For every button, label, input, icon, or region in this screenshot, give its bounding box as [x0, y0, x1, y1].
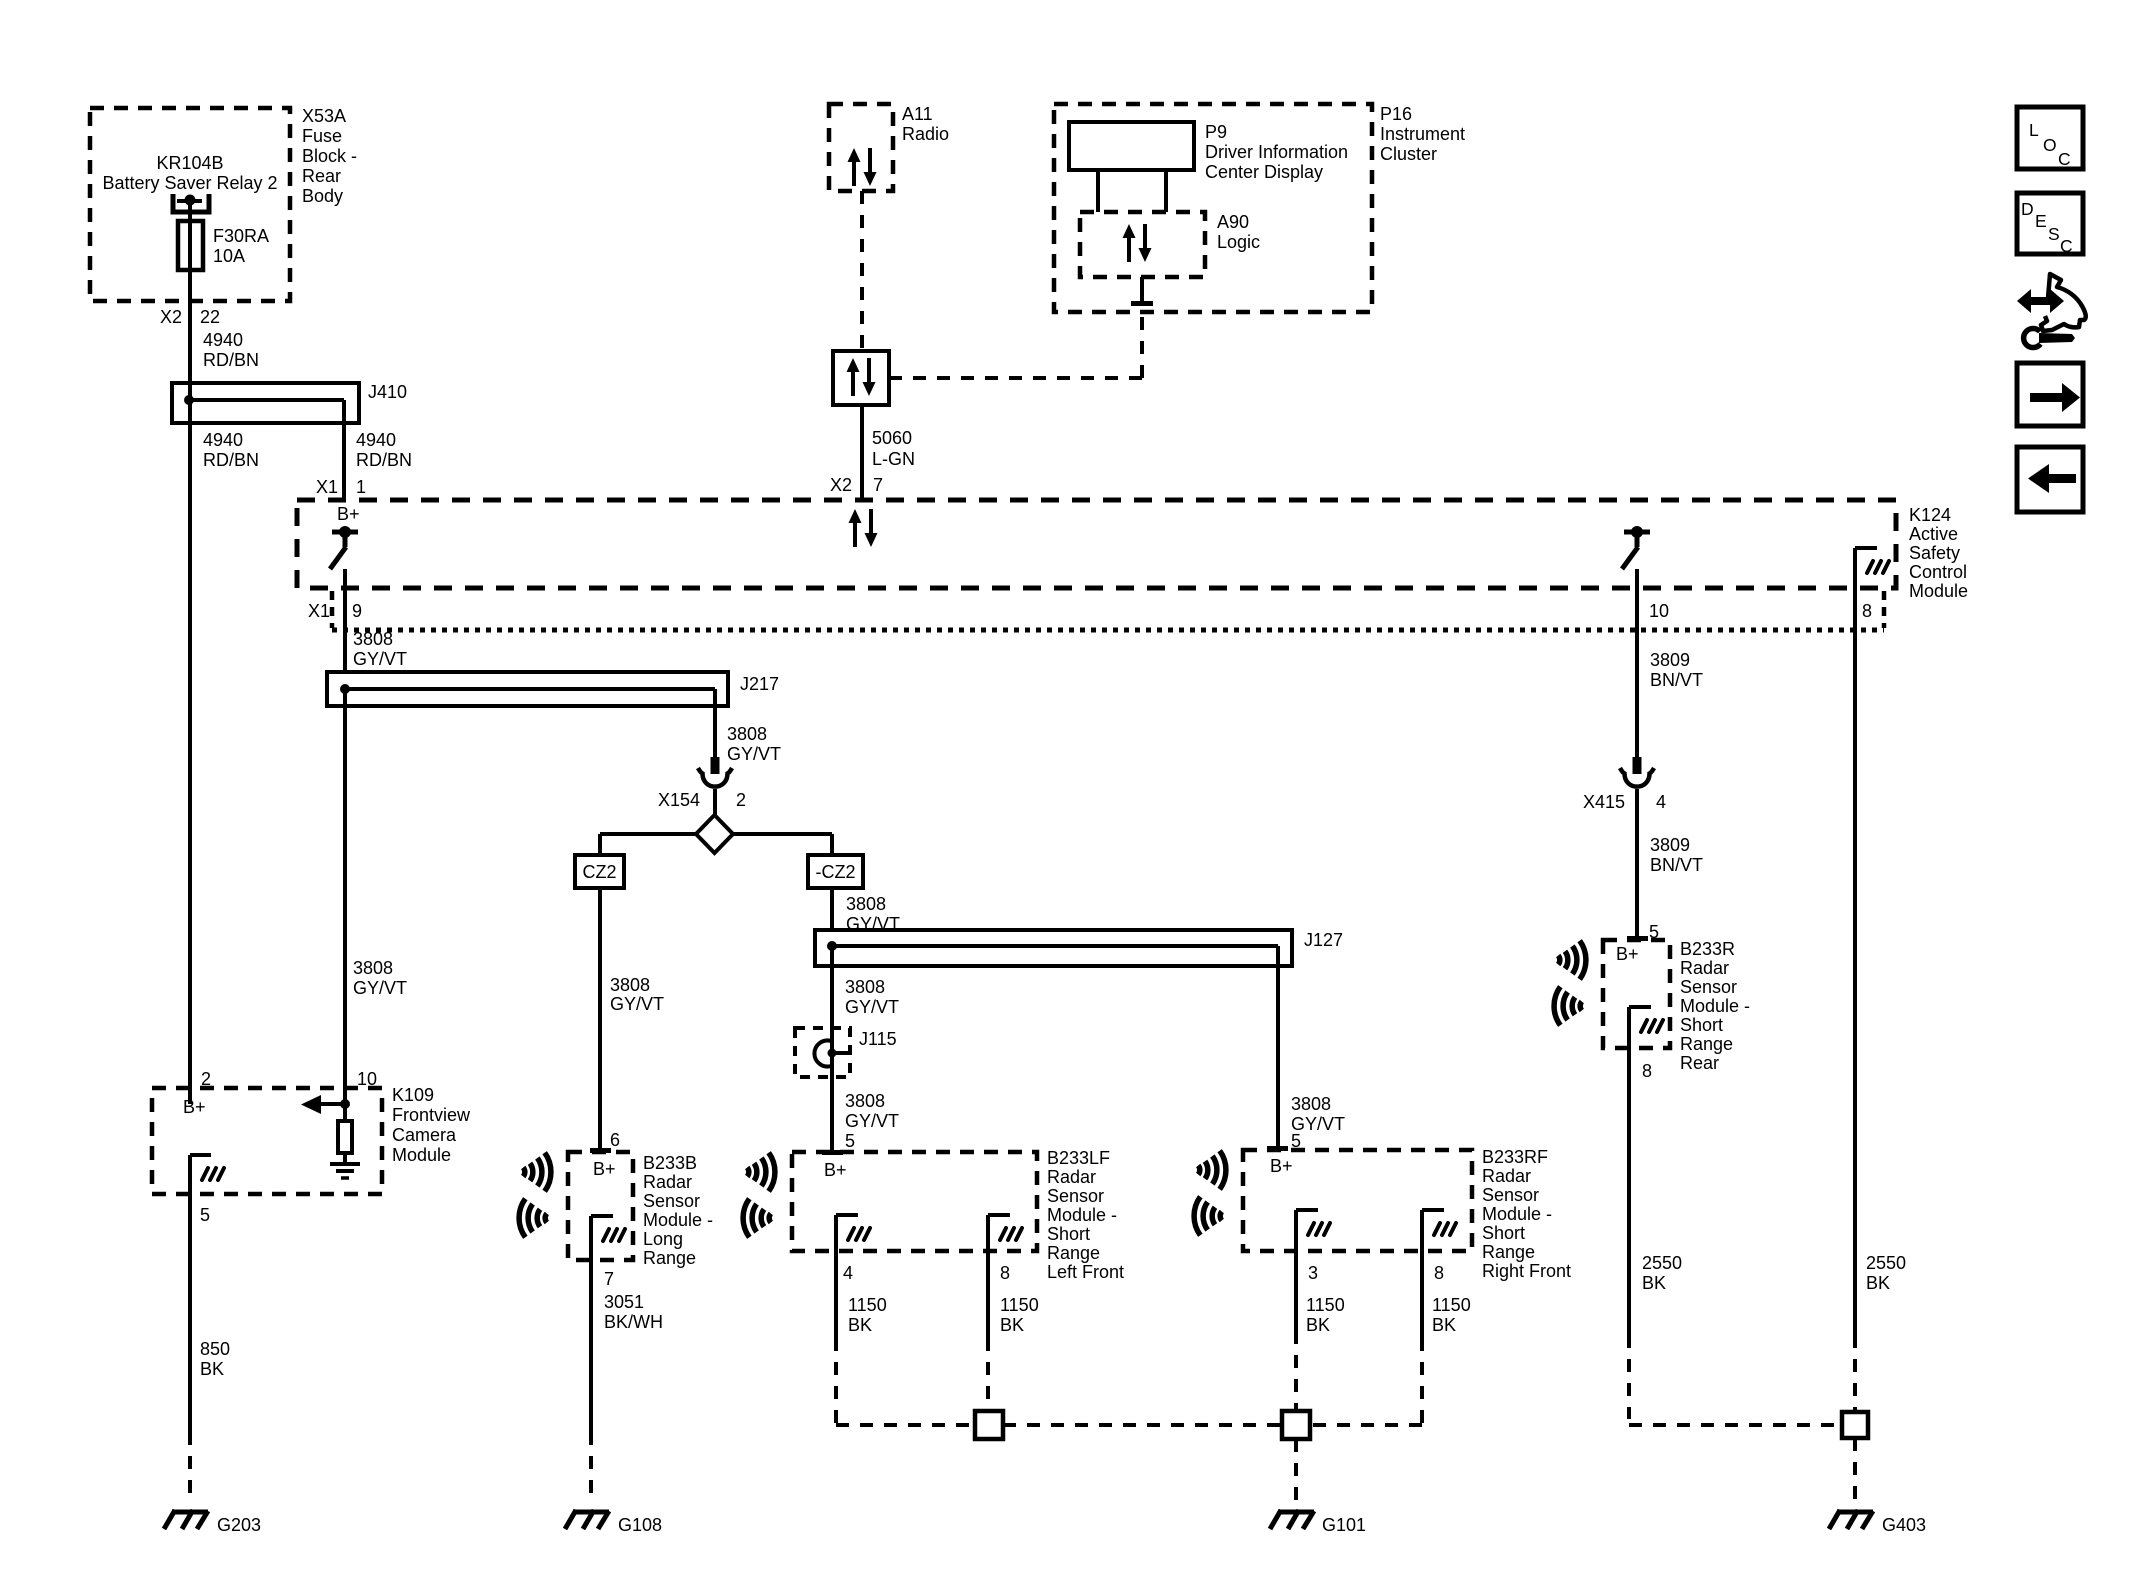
- svg-text:X2: X2: [160, 307, 182, 327]
- svg-text:Short: Short: [1482, 1223, 1525, 1243]
- svg-text:Active: Active: [1909, 524, 1958, 544]
- svg-text:S: S: [2048, 224, 2060, 244]
- svg-text:1150: 1150: [848, 1295, 887, 1315]
- svg-text:Sensor: Sensor: [1482, 1185, 1539, 1205]
- svg-text:Sensor: Sensor: [1047, 1186, 1104, 1206]
- svg-text:E: E: [2035, 211, 2047, 231]
- svg-text:RD/BN: RD/BN: [203, 450, 259, 470]
- svg-text:B233B: B233B: [643, 1153, 697, 1173]
- svg-text:8: 8: [1000, 1263, 1010, 1283]
- svg-text:10: 10: [357, 1069, 377, 1089]
- svg-text:Module -: Module -: [1482, 1204, 1552, 1224]
- svg-text:Long: Long: [643, 1229, 683, 1249]
- svg-text:Sensor: Sensor: [643, 1191, 700, 1211]
- svg-text:J127: J127: [1304, 930, 1343, 950]
- svg-text:22: 22: [200, 307, 220, 327]
- svg-text:4940: 4940: [203, 430, 243, 450]
- svg-text:Range: Range: [1482, 1242, 1535, 1262]
- svg-text:5: 5: [200, 1205, 210, 1225]
- svg-text:2: 2: [736, 790, 746, 810]
- svg-text:Center Display: Center Display: [1205, 162, 1323, 182]
- svg-text:B+: B+: [337, 504, 360, 524]
- svg-text:Radio: Radio: [902, 124, 949, 144]
- svg-text:KR104B: KR104B: [156, 153, 223, 173]
- svg-text:Right Front: Right Front: [1482, 1261, 1571, 1281]
- svg-text:Frontview: Frontview: [392, 1105, 471, 1125]
- svg-text:G203: G203: [217, 1515, 261, 1535]
- svg-text:B233R: B233R: [1680, 939, 1735, 959]
- svg-text:B+: B+: [593, 1159, 616, 1179]
- svg-text:RD/BN: RD/BN: [356, 450, 412, 470]
- svg-text:5: 5: [845, 1131, 855, 1151]
- svg-text:8: 8: [1862, 601, 1872, 621]
- svg-text:CZ2: CZ2: [582, 862, 616, 882]
- svg-text:BK: BK: [200, 1359, 224, 1379]
- svg-text:Sensor: Sensor: [1680, 977, 1737, 997]
- svg-text:2: 2: [201, 1069, 211, 1089]
- svg-text:4940: 4940: [356, 430, 396, 450]
- svg-text:Radar: Radar: [643, 1172, 692, 1192]
- svg-text:1150: 1150: [1306, 1295, 1345, 1315]
- svg-text:3808: 3808: [353, 629, 393, 649]
- svg-text:GY/VT: GY/VT: [846, 914, 900, 934]
- svg-text:3051: 3051: [604, 1292, 644, 1312]
- svg-text:4: 4: [1656, 792, 1666, 812]
- svg-text:9: 9: [352, 601, 362, 621]
- svg-text:3808: 3808: [727, 724, 767, 744]
- svg-text:B+: B+: [1616, 944, 1639, 964]
- svg-text:X415: X415: [1583, 792, 1625, 812]
- svg-text:3808: 3808: [845, 977, 885, 997]
- svg-text:3808: 3808: [353, 958, 393, 978]
- svg-text:F30RA: F30RA: [213, 226, 269, 246]
- svg-text:Instrument: Instrument: [1380, 124, 1465, 144]
- svg-text:Range: Range: [1680, 1034, 1733, 1054]
- svg-text:BK/WH: BK/WH: [604, 1312, 663, 1332]
- svg-text:D: D: [2021, 199, 2034, 219]
- svg-text:GY/VT: GY/VT: [845, 1111, 899, 1131]
- svg-text:Module -: Module -: [643, 1210, 713, 1230]
- svg-text:10: 10: [1649, 601, 1669, 621]
- svg-text:-CZ2: -CZ2: [816, 862, 856, 882]
- svg-text:Body: Body: [302, 186, 343, 206]
- svg-text:5: 5: [1649, 922, 1659, 942]
- svg-text:Radar: Radar: [1047, 1167, 1096, 1187]
- svg-text:K109: K109: [392, 1085, 434, 1105]
- svg-text:G101: G101: [1322, 1515, 1366, 1535]
- svg-text:B+: B+: [183, 1097, 206, 1117]
- svg-text:Short: Short: [1680, 1015, 1723, 1035]
- svg-text:X2: X2: [830, 475, 852, 495]
- svg-text:J217: J217: [740, 674, 779, 694]
- svg-text:BN/VT: BN/VT: [1650, 670, 1703, 690]
- svg-text:BN/VT: BN/VT: [1650, 855, 1703, 875]
- svg-text:Module: Module: [392, 1145, 451, 1165]
- svg-text:Camera: Camera: [392, 1125, 457, 1145]
- svg-text:5060: 5060: [872, 428, 912, 448]
- svg-text:BK: BK: [848, 1315, 872, 1335]
- svg-text:BK: BK: [1000, 1315, 1024, 1335]
- svg-text:C: C: [2060, 236, 2073, 256]
- svg-text:Block -: Block -: [302, 146, 357, 166]
- svg-text:3: 3: [1308, 1263, 1318, 1283]
- svg-text:Short: Short: [1047, 1224, 1090, 1244]
- svg-text:1: 1: [356, 477, 366, 497]
- svg-text:A11: A11: [902, 104, 933, 124]
- svg-text:A90: A90: [1217, 212, 1249, 232]
- svg-text:850: 850: [200, 1339, 230, 1359]
- svg-text:B233RF: B233RF: [1482, 1147, 1548, 1167]
- svg-text:P9: P9: [1205, 122, 1227, 142]
- svg-text:2550: 2550: [1642, 1253, 1682, 1273]
- svg-text:BK: BK: [1866, 1273, 1890, 1293]
- svg-text:B+: B+: [824, 1160, 847, 1180]
- svg-text:GY/VT: GY/VT: [727, 744, 781, 764]
- svg-text:Radar: Radar: [1482, 1166, 1531, 1186]
- svg-text:Left Front: Left Front: [1047, 1262, 1124, 1282]
- svg-text:Safety: Safety: [1909, 543, 1960, 563]
- svg-text:Range: Range: [1047, 1243, 1100, 1263]
- svg-text:3809: 3809: [1650, 835, 1690, 855]
- svg-text:1150: 1150: [1000, 1295, 1039, 1315]
- svg-text:Rear: Rear: [1680, 1053, 1719, 1073]
- svg-text:X1: X1: [308, 601, 330, 621]
- svg-text:3808: 3808: [1291, 1094, 1331, 1114]
- svg-text:Fuse: Fuse: [302, 126, 342, 146]
- svg-text:3808: 3808: [846, 894, 886, 914]
- svg-text:Cluster: Cluster: [1380, 144, 1437, 164]
- svg-text:BK: BK: [1432, 1315, 1456, 1335]
- svg-text:K124: K124: [1909, 505, 1951, 525]
- svg-text:BK: BK: [1642, 1273, 1666, 1293]
- svg-text:Module -: Module -: [1047, 1205, 1117, 1225]
- svg-text:8: 8: [1434, 1263, 1444, 1283]
- svg-text:X1: X1: [316, 477, 338, 497]
- svg-text:Radar: Radar: [1680, 958, 1729, 978]
- svg-text:RD/BN: RD/BN: [203, 350, 259, 370]
- svg-text:Module -: Module -: [1680, 996, 1750, 1016]
- svg-text:GY/VT: GY/VT: [610, 994, 664, 1014]
- svg-text:3809: 3809: [1650, 650, 1690, 670]
- svg-text:X154: X154: [658, 790, 700, 810]
- svg-text:BK: BK: [1306, 1315, 1330, 1335]
- svg-text:Driver Information: Driver Information: [1205, 142, 1348, 162]
- svg-text:3808: 3808: [845, 1091, 885, 1111]
- svg-text:10A: 10A: [213, 246, 245, 266]
- svg-text:5: 5: [1291, 1131, 1301, 1151]
- svg-text:Module: Module: [1909, 581, 1968, 601]
- svg-text:J410: J410: [368, 382, 407, 402]
- svg-text:8: 8: [1642, 1061, 1652, 1081]
- svg-text:L-GN: L-GN: [872, 449, 915, 469]
- svg-text:O: O: [2043, 135, 2057, 155]
- svg-text:GY/VT: GY/VT: [845, 997, 899, 1017]
- svg-text:6: 6: [610, 1130, 620, 1150]
- svg-text:GY/VT: GY/VT: [353, 978, 407, 998]
- svg-text:7: 7: [873, 475, 883, 495]
- svg-text:4940: 4940: [203, 330, 243, 350]
- svg-text:Range: Range: [643, 1248, 696, 1268]
- svg-text:Rear: Rear: [302, 166, 341, 186]
- svg-text:4: 4: [843, 1263, 853, 1283]
- svg-text:GY/VT: GY/VT: [353, 649, 407, 669]
- svg-text:C: C: [2058, 149, 2071, 169]
- svg-text:G108: G108: [618, 1515, 662, 1535]
- svg-text:2550: 2550: [1866, 1253, 1906, 1273]
- svg-text:Logic: Logic: [1217, 232, 1260, 252]
- svg-text:L: L: [2029, 120, 2039, 140]
- svg-text:Control: Control: [1909, 562, 1967, 582]
- svg-text:X53A: X53A: [302, 106, 346, 126]
- svg-text:7: 7: [604, 1269, 614, 1289]
- svg-text:3808: 3808: [610, 975, 650, 995]
- svg-text:1150: 1150: [1432, 1295, 1471, 1315]
- svg-text:B+: B+: [1270, 1156, 1293, 1176]
- svg-text:J115: J115: [859, 1029, 897, 1049]
- svg-text:P16: P16: [1380, 104, 1412, 124]
- svg-text:B233LF: B233LF: [1047, 1148, 1110, 1168]
- svg-text:G403: G403: [1882, 1515, 1926, 1535]
- svg-text:Battery Saver Relay 2: Battery Saver Relay 2: [102, 173, 277, 193]
